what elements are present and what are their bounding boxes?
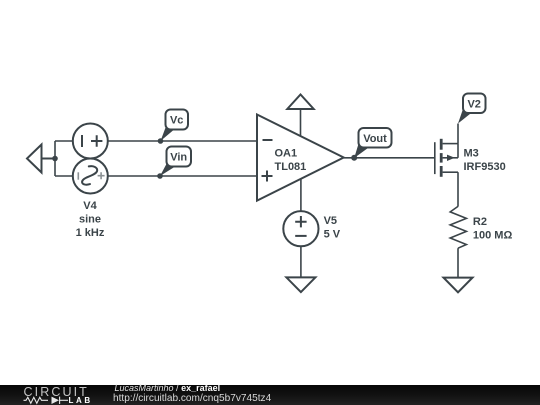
svg-text:100 MΩ: 100 MΩ (473, 229, 513, 241)
wire: R2 to ground (457, 248, 459, 277)
wire: op-amp output to M3 gate (344, 157, 435, 159)
svg-text:V2: V2 (467, 98, 480, 110)
svg-text:Vout: Vout (363, 133, 387, 145)
svg-text:http://circuitlab.com/cnq5b7v7: http://circuitlab.com/cnq5b7v745tz4 (113, 393, 272, 404)
op-amp OA1 (triangle body with - and + inputs) (257, 115, 344, 201)
svg-text:1 kHz: 1 kHz (76, 227, 105, 239)
ground below R2 (444, 278, 473, 293)
net flag Vc (161, 110, 189, 142)
transistor M3 (P-channel MOSFET IRF9530) (435, 139, 458, 177)
junction at Vin flag (157, 173, 163, 179)
net flag V2 (458, 94, 486, 124)
svg-text:R2: R2 (473, 216, 487, 228)
net flag Vin (160, 147, 191, 177)
svg-text:TL081: TL081 (275, 161, 307, 173)
power symbol at op-amp V+ (up triangle) (287, 95, 313, 137)
wire: V4 top to op-amp inverting input (108, 140, 257, 142)
svg-text:sine: sine (79, 214, 101, 226)
junction at Vc flag (158, 138, 164, 144)
svg-text:5 V: 5 V (324, 229, 341, 241)
svg-text:M3: M3 (464, 148, 479, 160)
wire: op-amp V- pin to V5 (300, 179, 302, 211)
wire: V4 left vertical bus (54, 141, 56, 176)
resistor R2 (zigzag) (450, 206, 466, 248)
voltage source V5 (283, 211, 318, 246)
label V5 / 5 V (324, 215, 341, 240)
CircuitLab logo (resistor + diode glyph) (24, 397, 69, 404)
svg-text:Vc: Vc (170, 115, 183, 127)
wire: M3 bottom terminal to R2 (457, 172, 459, 206)
CircuitLab logo (wordmark) (24, 385, 93, 405)
voltage source V4 (DC cell) (73, 124, 108, 159)
label OA1 TL081 (275, 148, 307, 173)
wire: M3 top terminal to V2 flag (457, 124, 459, 144)
wire: to V4 top-cell left terminal (55, 140, 73, 142)
svg-text:LucasMartinho / ex_rafael: LucasMartinho / ex_rafael (115, 383, 221, 393)
wire: V5 to ground (300, 246, 302, 277)
svg-text:Vin: Vin (170, 152, 187, 164)
wire: to V4 bottom-cell left terminal (55, 175, 73, 177)
svg-text:LAB: LAB (69, 396, 93, 405)
voltage source V4 (sine cell) (73, 159, 108, 194)
footer bar (0, 385, 540, 405)
junction at Vout flag (op-amp output node) (351, 155, 357, 161)
footer credits text (113, 383, 272, 404)
svg-text:V4: V4 (83, 200, 97, 212)
label V4 / sine / 1 kHz (76, 200, 105, 239)
junction node (ground / V4) (52, 156, 58, 162)
ground below V5 (286, 277, 315, 292)
label R2 / 100 MΩ (473, 216, 513, 241)
label M3 IRF9530 (464, 148, 506, 173)
wire: V4 bottom to op-amp non-inverting input (108, 175, 257, 177)
svg-text:IRF9530: IRF9530 (464, 161, 506, 173)
net flag Vout (354, 128, 391, 158)
svg-text:OA1: OA1 (275, 148, 298, 160)
ground (left, at V4 negative side) (27, 145, 55, 173)
svg-text:V5: V5 (324, 215, 337, 227)
